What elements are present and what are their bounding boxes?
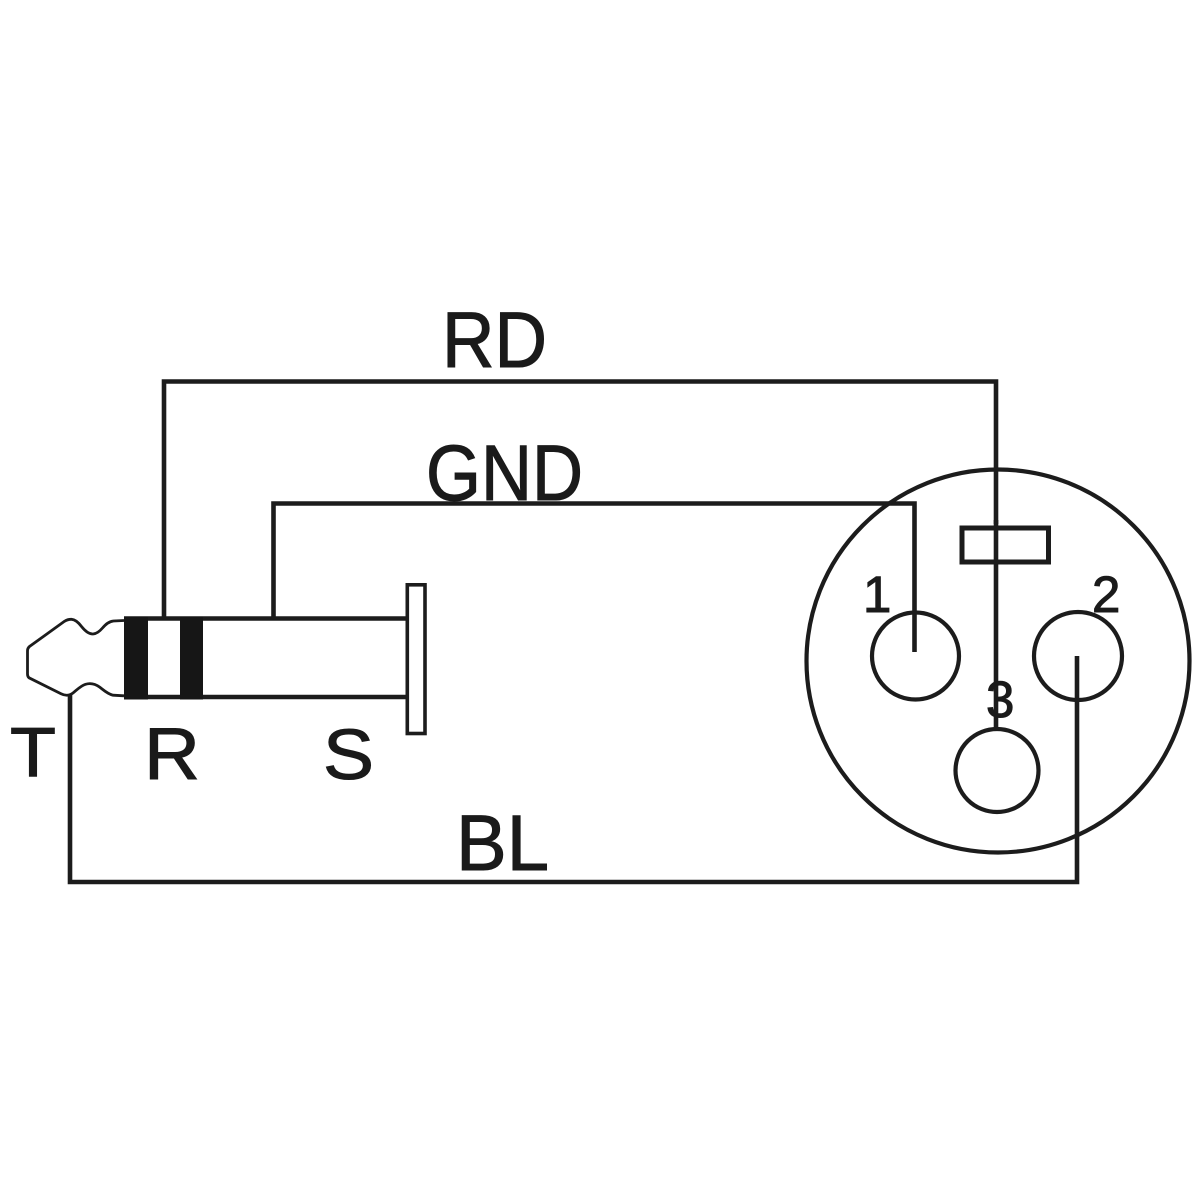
wire GND into pin 1	[912, 612, 917, 652]
TRS plug tip	[28, 619, 125, 696]
TRS plug flange (back plate)	[407, 585, 425, 734]
svg-text:2: 2	[1092, 566, 1120, 623]
XLR key notch rectangle	[962, 528, 1049, 562]
svg-text:R: R	[144, 714, 200, 795]
TRS insulator ring 1 (black band)	[124, 617, 148, 700]
svg-text:S: S	[323, 716, 374, 795]
wire BL (blue conductor, tip to pin 2)	[70, 656, 1077, 882]
wire RD (red conductor, ring to pin 3)	[164, 382, 996, 621]
XLR pin 2	[1034, 612, 1122, 700]
svg-text:T: T	[10, 713, 56, 791]
XLR pin 3	[956, 729, 1039, 812]
XLR connector shell (face circle)	[807, 470, 1190, 853]
XLR pin 1	[872, 613, 959, 700]
wire RD drop through notch to pin 3	[994, 520, 999, 731]
wire GND (shield, sleeve to pin 1)	[274, 504, 915, 653]
wire BL from pin 2	[1075, 656, 1080, 702]
TRS insulator ring 2 (black band)	[180, 617, 203, 700]
TRS plug barrel (sleeve body)	[124, 619, 406, 698]
svg-text:1: 1	[863, 566, 891, 623]
svg-text:3: 3	[986, 671, 1014, 728]
svg-text:RD: RD	[442, 295, 547, 384]
svg-text:GND: GND	[426, 428, 583, 517]
svg-text:BL: BL	[456, 798, 549, 887]
